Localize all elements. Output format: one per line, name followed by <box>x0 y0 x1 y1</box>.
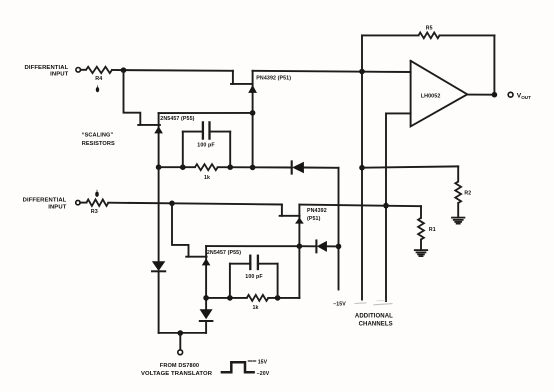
svg-text:INPUT: INPUT <box>48 205 66 211</box>
svg-text:ADDITIONAL: ADDITIONAL <box>355 313 393 319</box>
svg-text:RESISTORS: RESISTORS <box>82 141 115 147</box>
svg-text:100 pF: 100 pF <box>197 143 215 149</box>
svg-text:R5: R5 <box>426 26 433 32</box>
svg-text:R2: R2 <box>464 191 471 197</box>
svg-text:“SCALING”: “SCALING” <box>82 133 114 139</box>
svg-text:1k: 1k <box>253 305 259 311</box>
svg-text:–15V: –15V <box>333 302 346 308</box>
svg-text:PN4392 (P51): PN4392 (P51) <box>256 75 291 81</box>
svg-text:PN4392: PN4392 <box>307 208 327 214</box>
svg-text:15V: 15V <box>258 360 268 366</box>
svg-text:LH0052: LH0052 <box>421 93 441 99</box>
svg-text:DIFFERENTIAL: DIFFERENTIAL <box>23 198 67 204</box>
svg-text:VOLTAGE TRANSLATOR: VOLTAGE TRANSLATOR <box>141 371 213 377</box>
svg-text:DIFFERENTIAL: DIFFERENTIAL <box>25 65 69 71</box>
svg-text:–20V: –20V <box>257 371 270 377</box>
svg-text:1k: 1k <box>204 175 210 181</box>
svg-text:INPUT: INPUT <box>50 71 68 77</box>
svg-text:CHANNELS: CHANNELS <box>359 322 393 328</box>
svg-text:(P51): (P51) <box>307 216 321 222</box>
svg-text:R4: R4 <box>95 76 102 82</box>
svg-text:FROM DS7800: FROM DS7800 <box>160 363 199 369</box>
svg-text:R1: R1 <box>429 227 436 233</box>
svg-text:2N5457 (P55): 2N5457 (P55) <box>160 116 194 122</box>
svg-text:R3: R3 <box>91 209 98 215</box>
svg-text:2N5457 (P55): 2N5457 (P55) <box>207 250 241 256</box>
svg-text:100 pF: 100 pF <box>245 274 263 280</box>
